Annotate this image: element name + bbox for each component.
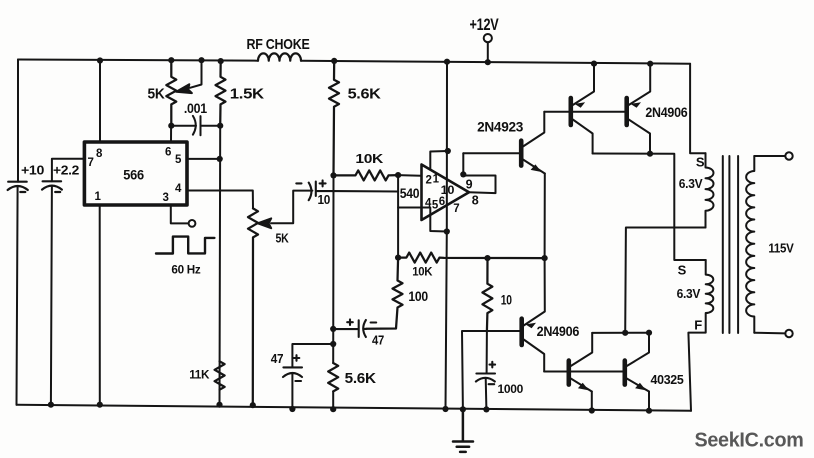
op-amp U2 540 triangle <box>422 165 470 221</box>
wire 10 resistor to 1000 cap <box>486 331 488 374</box>
junction .001 right node <box>217 123 223 129</box>
svg-text:6: 6 <box>439 196 445 208</box>
resistor R9 5.6K lower <box>328 363 338 391</box>
svg-text:6: 6 <box>165 146 171 158</box>
svg-text:1: 1 <box>95 191 102 203</box>
wire Q2 collector to upper bases <box>544 111 624 113</box>
svg-text:+10: +10 <box>21 164 44 178</box>
svg-text:11K: 11K <box>189 368 210 382</box>
svg-text:3: 3 <box>163 192 169 204</box>
junction 10K lower left node <box>395 255 401 261</box>
svg-text:6.3V: 6.3V <box>679 177 703 191</box>
ground symbol <box>453 409 473 452</box>
junction bottom rail / supply line <box>442 406 448 412</box>
inductor RF choke <box>258 53 301 60</box>
svg-text:566: 566 <box>123 168 144 183</box>
wire upper collectors row to lower winding feed <box>593 154 706 261</box>
terminal secondary bottom <box>754 330 792 337</box>
junction bottom rail / 1000 cap <box>483 406 489 412</box>
svg-text:1.5K: 1.5K <box>230 86 265 103</box>
junction bottom rail / 5.6K lower <box>330 406 336 412</box>
wire upper winding bottom to lower pair <box>625 228 705 333</box>
wire op-amp lower-left stub <box>398 208 447 232</box>
junction top rail / Q6 emitter <box>591 61 597 67</box>
svg-text:S: S <box>696 155 705 170</box>
resistor R7 10K lower <box>398 253 544 263</box>
junction Q2 emitter / Q3 emitter node <box>542 255 548 261</box>
wire pin7 to +2.2 cap <box>52 159 85 182</box>
svg-text:6.3V: 6.3V <box>677 287 701 301</box>
svg-text:60 Hz: 60 Hz <box>171 264 201 276</box>
svg-text:2N4906: 2N4906 <box>645 104 687 120</box>
capacitor C5 1000 <box>476 362 495 384</box>
capacitor C2 10 electrolytic <box>296 180 398 200</box>
svg-text:47: 47 <box>271 351 284 366</box>
junction bottom rail / pin1 <box>97 402 103 408</box>
wire Q3 base row to ground stub <box>462 331 520 409</box>
svg-text:9: 9 <box>466 178 473 192</box>
svg-text:+2.2: +2.2 <box>53 164 79 178</box>
wire pin1 to bottom rail <box>99 205 101 405</box>
svg-text:40325: 40325 <box>651 373 684 387</box>
svg-text:100: 100 <box>408 289 428 304</box>
transformer secondary 115V winding <box>746 156 754 333</box>
junction op-amp bottom stub node <box>444 228 450 234</box>
wire left vertical branch <box>17 60 19 405</box>
svg-text:2: 2 <box>426 174 432 186</box>
junction bottom rail / Q4 emitter <box>589 407 595 413</box>
transistor Q6 2N4906 upper-left <box>571 64 594 154</box>
svg-text:5K: 5K <box>276 231 289 245</box>
wire rail corner down to upper winding <box>690 64 705 154</box>
capacitor +10 <box>8 182 28 192</box>
waveform symbol 60 Hz square wave <box>156 237 214 254</box>
wire lower collectors row <box>592 332 649 334</box>
junction bottom rail / Q5 emitter <box>646 408 652 414</box>
wire 47 cap to bottom rail <box>291 373 293 409</box>
wire top +12V rail <box>18 60 690 64</box>
junction bottom rail / 47 cap <box>289 406 295 412</box>
junction 10 resistor top node <box>484 255 490 261</box>
svg-text:5K: 5K <box>148 86 165 103</box>
svg-text:+12V: +12V <box>470 15 500 34</box>
junction bottom rail / +2.2 cap <box>48 402 54 408</box>
junction pin9 box node <box>460 171 466 177</box>
junction top rail / 5K pot <box>168 57 174 63</box>
junction top rail / pin8 <box>97 57 103 63</box>
wire 540 node vertical <box>397 175 399 258</box>
junction 10K / op-amp input node <box>395 172 401 178</box>
wire +12 long vertical through op-amp <box>446 62 448 409</box>
resistor R8 100 <box>366 258 402 329</box>
wire pin8 from top rail <box>99 61 101 143</box>
potentiometer R1 5K upper <box>166 60 176 126</box>
svg-text:5: 5 <box>175 154 182 166</box>
potentiometer R3 5K lower <box>248 208 258 405</box>
terminal secondary top <box>754 152 792 159</box>
svg-text:5.6K: 5.6K <box>348 86 381 103</box>
transistor Q5 40325 <box>625 333 649 411</box>
svg-text:RF CHOKE: RF CHOKE <box>247 36 310 53</box>
transformer lower 6.3V winding <box>688 260 713 411</box>
wire op-amp output loop pins 9,8 <box>463 153 495 193</box>
svg-text:47: 47 <box>372 332 384 347</box>
transformer core <box>723 156 738 333</box>
capacitor C4 47 vertical <box>283 355 302 381</box>
junction top rail / Q7 emitter <box>647 61 653 67</box>
svg-text:7: 7 <box>453 203 459 215</box>
svg-text:10K: 10K <box>412 266 433 278</box>
svg-text:115V: 115V <box>768 240 794 255</box>
svg-text:8: 8 <box>472 194 479 208</box>
svg-text:5.6K: 5.6K <box>345 371 377 387</box>
junction top rail / 5.6K <box>331 58 337 64</box>
svg-text:10: 10 <box>441 185 455 197</box>
op-amp/IC U1 566 box <box>84 142 187 205</box>
junction 47 cap row node <box>330 326 336 332</box>
transistor Q7 2N4906 upper-right <box>627 64 651 154</box>
svg-text:2N4923: 2N4923 <box>477 119 523 135</box>
junction upper collectors node <box>647 151 653 157</box>
wire pin6 from .001 junction <box>170 126 172 142</box>
terminal +12V <box>484 34 492 62</box>
wire Q3 collector to lower bases <box>544 371 622 373</box>
svg-text:.001: .001 <box>184 101 208 116</box>
svg-text:S: S <box>678 263 687 278</box>
wire 1.5K junction down to pin5 and bottom <box>219 126 222 405</box>
junction 5.6K / 10K node <box>330 172 336 178</box>
potentiometer R3 wiper arrow <box>258 191 313 229</box>
junction .001 left node <box>168 123 174 129</box>
resistor R10 10 <box>482 258 492 331</box>
junction top rail / op-amp supply line <box>444 59 450 65</box>
IC pin numbers <box>88 146 183 204</box>
svg-text:SeekIC.com: SeekIC.com <box>695 430 804 452</box>
wire op-amp top stub <box>430 151 448 169</box>
transformer upper 6.3V winding <box>706 153 714 227</box>
wire op-amp to 2N4923 base <box>463 152 519 154</box>
potentiometer R1 wiper arrow <box>176 60 201 93</box>
junction 47 left branch node <box>330 341 336 347</box>
wire +2.2 cap to bottom rail <box>51 186 52 405</box>
capacitor +2.2 <box>42 181 62 192</box>
svg-text:7: 7 <box>88 157 94 169</box>
svg-text:2N4906: 2N4906 <box>537 323 580 339</box>
junction bottom rail / ground <box>460 406 466 412</box>
wire pin3 with terminal circle <box>171 205 196 227</box>
junction Q5 collector node <box>646 330 652 336</box>
svg-text:F: F <box>694 318 702 333</box>
resistor R2 1.5K <box>216 61 226 126</box>
junction pin5 node <box>217 156 223 162</box>
svg-text:10K: 10K <box>355 151 384 166</box>
junction bottom rail / 11K <box>216 402 222 408</box>
resistor R4 11K <box>215 361 225 389</box>
svg-text:540: 540 <box>400 186 420 201</box>
junction lower collectors / winding return node <box>622 330 628 336</box>
resistor R6 10K feedback upper <box>334 170 399 180</box>
svg-text:1000: 1000 <box>498 382 524 396</box>
transistor Q4 lower-middle <box>569 333 592 411</box>
svg-text:10: 10 <box>318 192 331 207</box>
wire 10K node into op-amp input <box>398 174 421 177</box>
junction top rail / +12V terminal <box>485 59 491 65</box>
transistor Q2 2N4923 <box>521 112 545 258</box>
svg-text:8: 8 <box>96 148 103 160</box>
svg-text:1: 1 <box>433 173 440 185</box>
junction top rail / 5K wiper <box>198 57 204 63</box>
svg-text:10: 10 <box>501 293 512 308</box>
wire 1000 cap to bottom rail <box>485 378 488 409</box>
transistor Q3 2N4906 lower-left <box>522 258 545 371</box>
wire 5.6K node down to 47 node <box>332 175 334 409</box>
wire bottom ground rail <box>17 405 692 411</box>
junction bottom rail / 5K pot lower <box>250 402 256 408</box>
junction top rail / 1.5K <box>218 58 224 64</box>
capacitor C3 47 horizontal <box>333 319 376 337</box>
svg-text:4: 4 <box>175 183 182 195</box>
capacitor C1 .001 <box>171 116 220 135</box>
wire 47 node left branch <box>292 344 333 367</box>
resistor R5 5.6K upper <box>329 61 339 175</box>
wire pin5 <box>187 158 220 160</box>
op-amp pin numbers <box>425 173 479 215</box>
junction op-amp top stub node <box>445 148 451 154</box>
wire pin4 row <box>187 191 253 209</box>
